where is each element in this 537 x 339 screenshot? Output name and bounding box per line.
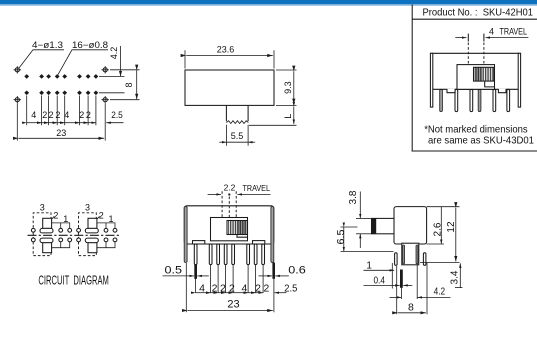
left mounting bracket <box>430 53 432 107</box>
body (side view) <box>394 207 427 244</box>
pin 1 <box>194 244 197 265</box>
foot pin rear <box>416 245 418 264</box>
pin extension lines <box>196 265 274 313</box>
pad extension lines <box>27 96 96 126</box>
svg-text:16−ø0.8: 16−ø0.8 <box>72 40 108 50</box>
dimension 12 <box>420 207 460 263</box>
svg-text:23.6: 23.6 <box>217 45 235 55</box>
svg-text:4: 4 <box>64 110 69 120</box>
wiper shoe top <box>85 228 98 233</box>
svg-text:3: 3 <box>85 203 90 213</box>
svg-text:3.8: 3.8 <box>348 190 359 204</box>
pin 4 (gray) <box>478 89 481 111</box>
svg-text:3.4: 3.4 <box>449 270 460 284</box>
svg-text:4: 4 <box>31 110 36 120</box>
wiper shoe bottom <box>40 238 53 243</box>
actuator knob (side) <box>372 218 395 233</box>
svg-text:3: 3 <box>40 203 45 213</box>
dimension 2.6 <box>427 207 444 244</box>
svg-text:23: 23 <box>56 128 66 138</box>
terminal mid bottom <box>59 238 63 242</box>
pin 6 <box>247 244 250 265</box>
terminal 3 top <box>31 228 35 232</box>
wiper body bottom <box>43 243 52 253</box>
pin 3 <box>470 89 473 111</box>
svg-text:4: 4 <box>489 27 494 37</box>
pin 5 <box>232 244 235 265</box>
svg-text:4.2: 4.2 <box>109 47 119 60</box>
gang linkage dashed (pin3 path) <box>33 213 51 256</box>
case bottom edge <box>433 88 518 90</box>
wiper shoe bottom <box>85 238 98 243</box>
foot pin front <box>403 245 405 264</box>
svg-text:2: 2 <box>86 110 91 120</box>
link wire top <box>97 223 115 228</box>
dimension 3.4 <box>449 263 462 287</box>
pin 3 <box>217 244 220 265</box>
dimension 9.3 <box>276 70 297 105</box>
product box frame <box>412 5 537 152</box>
pitch labels 4 2 2 2 4 2 2 <box>31 110 91 120</box>
center axis line <box>28 234 120 236</box>
pin 2 <box>455 89 458 111</box>
bottom tab left <box>193 241 205 244</box>
dimension 3.8 <box>348 190 372 248</box>
actuator stem with break line <box>226 105 248 123</box>
svg-text:8: 8 <box>124 82 134 87</box>
terminal 1 top <box>113 228 117 232</box>
svg-text:Product No. : SKU-42H01: Product No. : SKU-42H01 <box>423 7 534 19</box>
pitch dimension line <box>27 122 96 124</box>
right mounting bracket <box>518 53 520 107</box>
svg-text:TRAVEL: TRAVEL <box>243 184 271 193</box>
svg-text:2: 2 <box>99 210 104 220</box>
svg-text:2.6: 2.6 <box>433 222 444 236</box>
dimension 1 <box>364 261 395 272</box>
svg-text:2: 2 <box>55 110 60 120</box>
wiper shoe top <box>40 228 53 233</box>
pitch labels 4 2 2 2 4 2 2 <box>199 282 269 294</box>
terminal mid bottom <box>104 238 108 242</box>
svg-text:0.5: 0.5 <box>165 265 183 277</box>
mount hole extension lines <box>17 104 105 141</box>
switch body (top view) <box>185 70 274 105</box>
callout 16-dia0.8 <box>58 40 108 75</box>
svg-text:2.5: 2.5 <box>111 110 123 120</box>
dimension 6.5 <box>336 227 393 251</box>
label-2 leader <box>52 216 54 219</box>
svg-text:9.3: 9.3 <box>283 81 293 94</box>
bottom notch right <box>498 89 506 93</box>
knob base <box>457 65 495 90</box>
svg-text:4.2: 4.2 <box>434 286 446 297</box>
terminal mid top <box>59 228 63 232</box>
svg-text:5.5: 5.5 <box>231 131 244 141</box>
dimension 23.6 <box>185 45 274 69</box>
dimension 4.2 (pad row pitch) <box>99 46 125 93</box>
svg-text:TRAVEL: TRAVEL <box>500 27 528 37</box>
link wire bottom <box>97 242 115 248</box>
dimension 4.2 <box>390 265 451 299</box>
svg-text:4−ø1.3: 4−ø1.3 <box>32 40 63 50</box>
wiper body bottom <box>88 243 97 253</box>
dimension 4 TRAVEL <box>455 27 528 65</box>
right bracket (gray) <box>271 206 274 262</box>
pole group A <box>31 203 71 256</box>
dimension L <box>249 107 297 126</box>
pin 2 <box>209 244 212 265</box>
pole group B <box>77 203 117 256</box>
gang linkage dashed (pin3 path) <box>79 213 97 256</box>
terminal 1 bottom <box>113 238 117 242</box>
svg-text:0.4: 0.4 <box>373 275 385 286</box>
pin 5 <box>493 89 496 111</box>
terminal mid top <box>104 228 108 232</box>
svg-text:2: 2 <box>48 110 53 120</box>
svg-text:2: 2 <box>53 210 58 220</box>
pin1 lower solid (0.5 ref) <box>194 265 197 279</box>
left bracket (gray) <box>184 206 187 262</box>
dimension 5.5 <box>219 125 255 146</box>
terminal 3 bottom <box>31 238 35 242</box>
extension line left of legs <box>391 263 393 289</box>
dimension 23 <box>18 128 104 138</box>
svg-text:CIRCUIT DIAGRAM: CIRCUIT DIAGRAM <box>38 273 109 288</box>
pin 8 <box>262 244 265 265</box>
wiper body top <box>43 218 52 228</box>
dimension 0.4 <box>364 275 413 286</box>
pad row top (8 diamonds) <box>24 74 98 79</box>
knob base <box>211 218 248 241</box>
mounting hole TR <box>102 66 109 73</box>
svg-text:8: 8 <box>408 302 414 314</box>
bottom notch left <box>447 89 455 93</box>
dimension 2.5 <box>275 282 298 294</box>
svg-text:2.2: 2.2 <box>224 182 236 192</box>
svg-text:2: 2 <box>263 282 269 294</box>
pin 4 <box>224 244 227 265</box>
slider step <box>485 81 495 87</box>
svg-text:are same as SKU-43D01: are same as SKU-43D01 <box>428 135 534 147</box>
travel guide dashed lines <box>222 191 236 217</box>
mounting hole BL <box>14 96 21 103</box>
terminal 1 top <box>68 228 72 232</box>
terminal foot block <box>402 243 419 265</box>
mounting hole TL <box>14 66 21 73</box>
wiper body top <box>88 218 97 228</box>
terminal 3 bottom <box>77 238 81 242</box>
svg-text:L: L <box>283 114 293 119</box>
slider (hatched) <box>227 221 248 235</box>
dimension 23 <box>186 263 272 312</box>
link wire bottom <box>52 242 70 248</box>
dimension 0.6 <box>259 265 306 277</box>
pitch dimension line <box>196 292 264 294</box>
svg-text:2: 2 <box>79 110 84 120</box>
svg-text:6.5: 6.5 <box>336 229 347 244</box>
pin 6 <box>507 89 510 111</box>
pin 1 (gray) <box>440 89 443 111</box>
dimension 2.2 TRAVEL <box>208 182 271 195</box>
dimension 8 <box>397 263 427 315</box>
slider step <box>237 235 248 238</box>
pin 7 <box>254 244 257 265</box>
slider (hatched) <box>474 67 494 81</box>
label-2 leader <box>97 216 99 219</box>
case top edge <box>431 52 521 54</box>
svg-text:0.6: 0.6 <box>288 265 306 277</box>
case body <box>184 206 273 244</box>
pin lower solid (0.4 ref) <box>400 270 403 288</box>
bracket lower solid (0.6 ref) <box>272 263 275 279</box>
callout 4-dia1.3 <box>19 40 64 68</box>
terminal 1 bottom <box>68 238 72 242</box>
dimension 2.5 <box>106 110 123 123</box>
bracket leg right <box>423 253 426 265</box>
bracket leg left <box>395 253 398 265</box>
svg-text:2: 2 <box>42 110 47 120</box>
dimension 0.5 <box>163 265 209 277</box>
blue header bar <box>0 0 537 4</box>
bottom tab right <box>253 241 265 244</box>
link wire top <box>52 223 70 228</box>
svg-text:23: 23 <box>227 299 239 311</box>
mounting hole BR <box>102 96 109 103</box>
pad row bottom (8 diamonds) <box>24 91 98 96</box>
terminal 3 top <box>77 228 81 232</box>
dimension 8 (mount hole row pitch) <box>110 70 140 100</box>
